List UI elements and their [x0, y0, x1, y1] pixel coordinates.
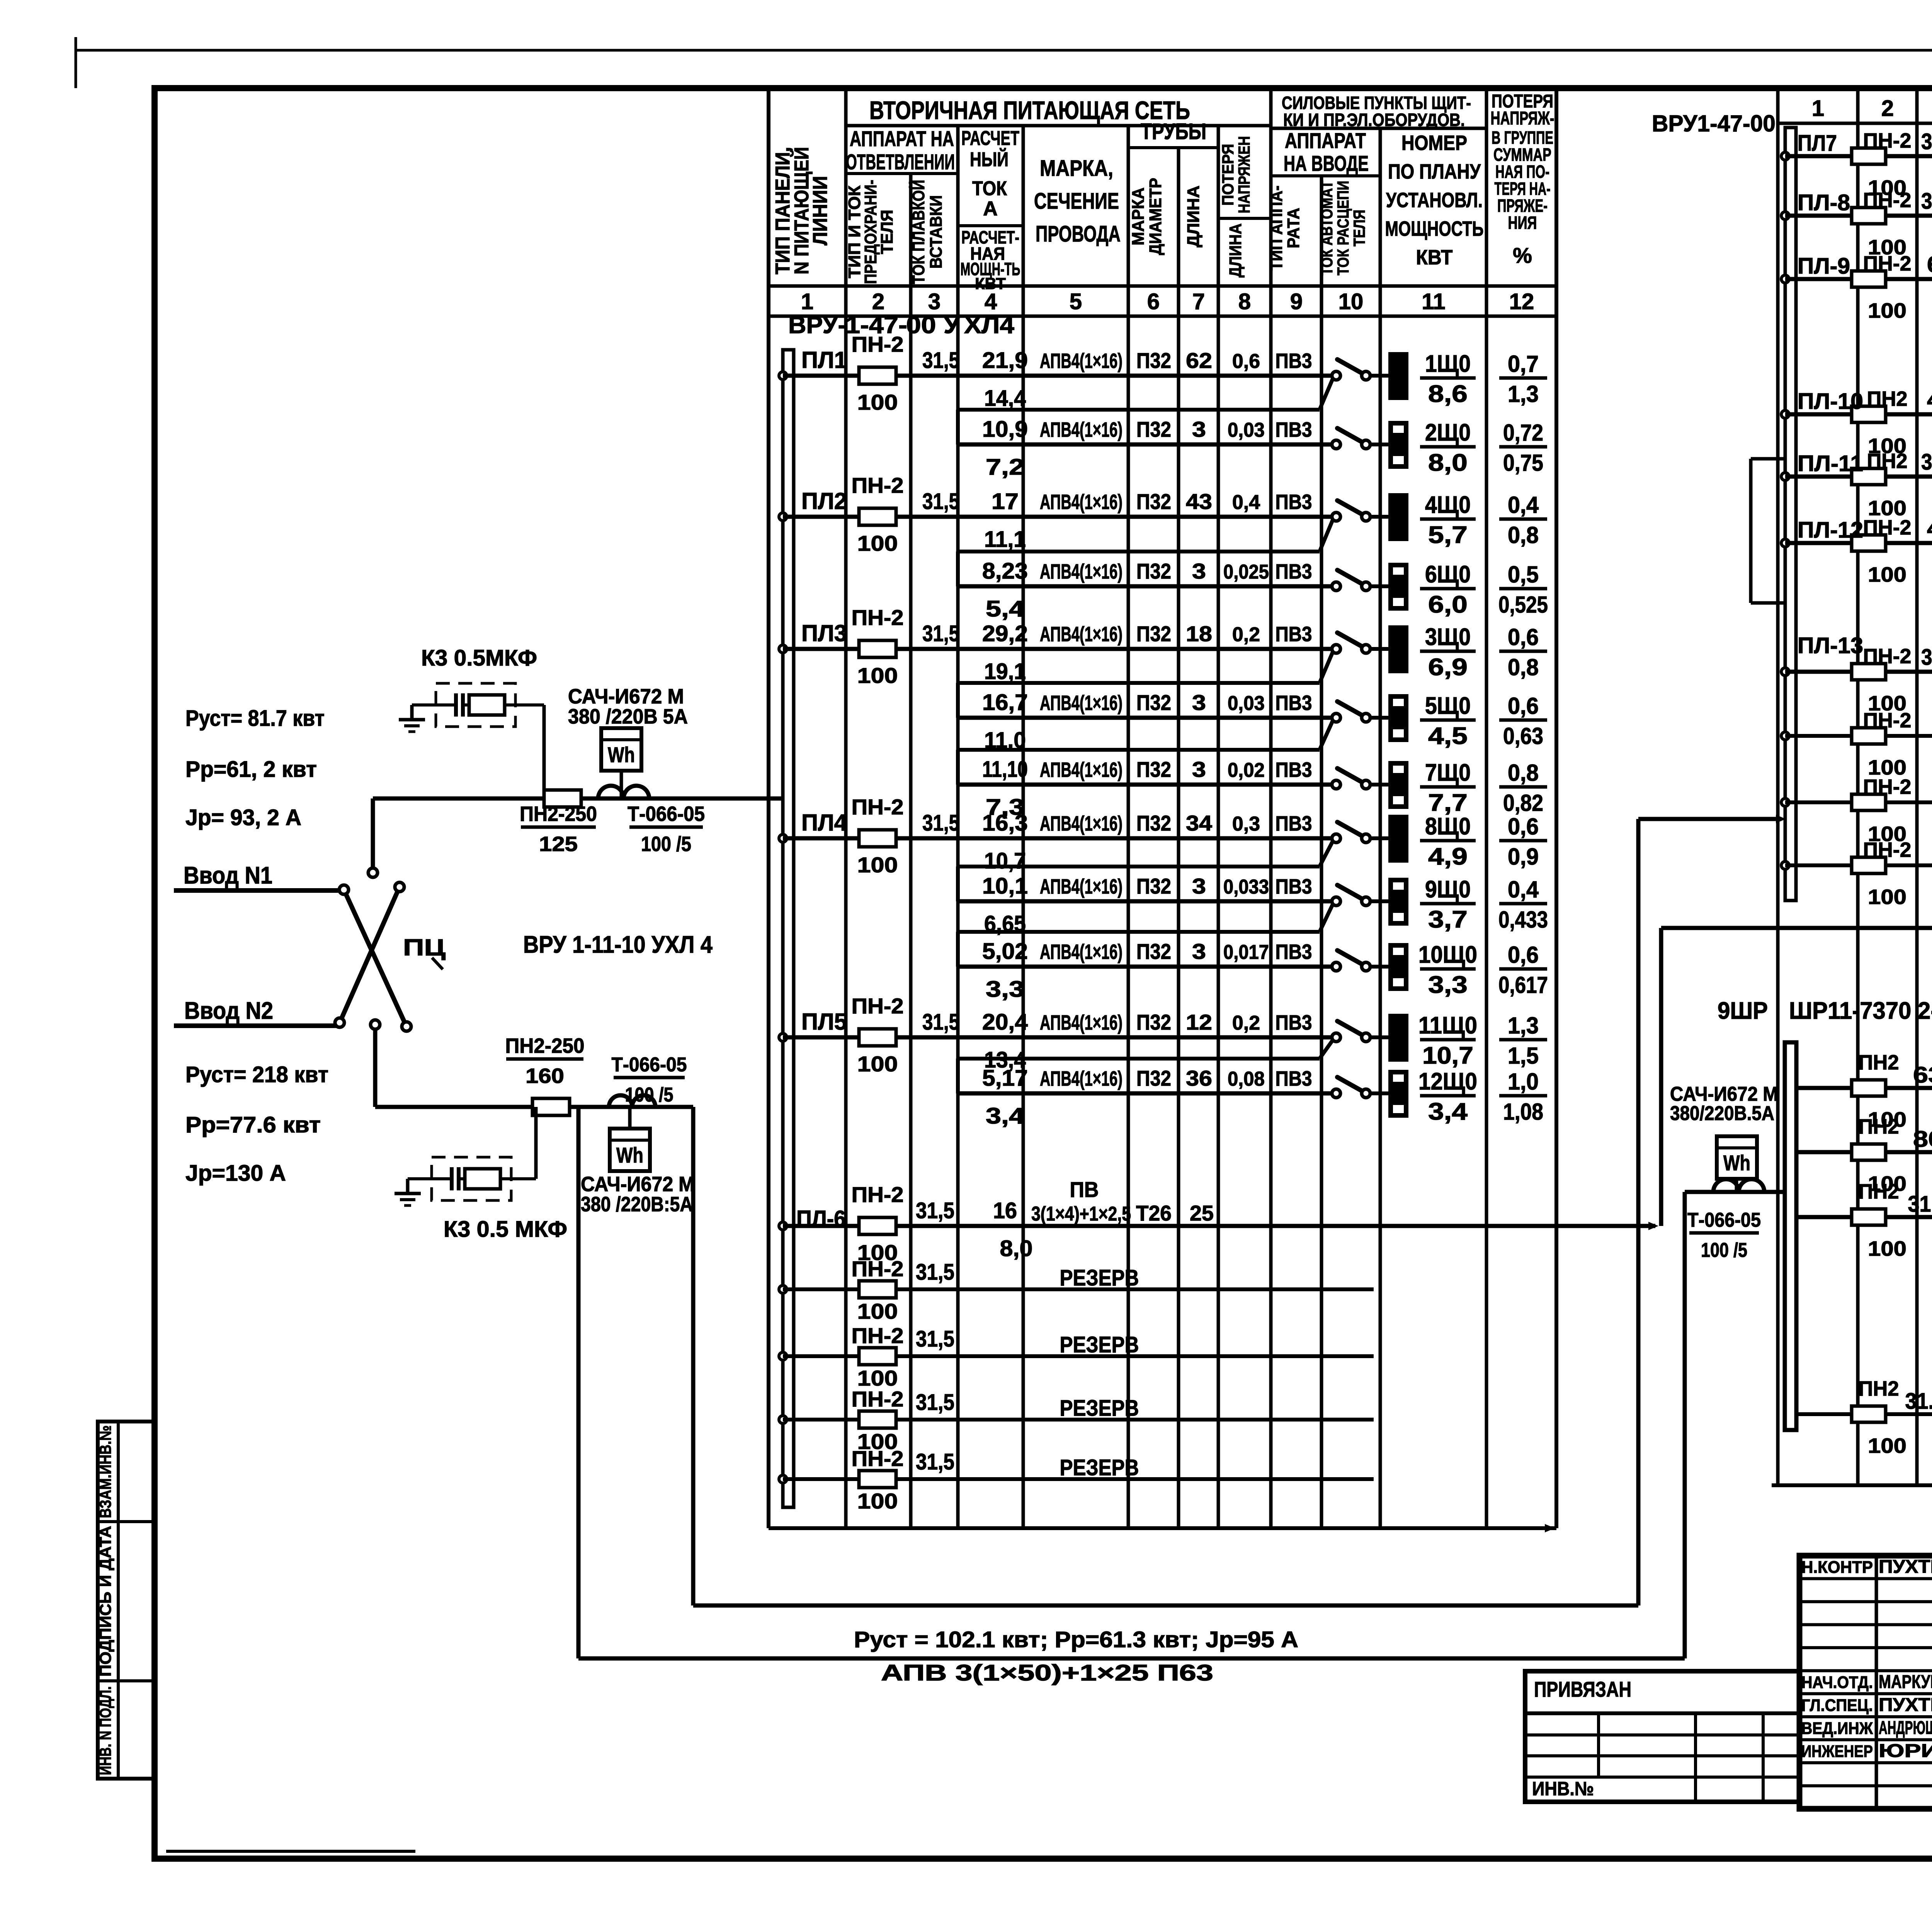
svg-text:МАРКА,: МАРКА,: [1040, 156, 1113, 181]
svg-text:34: 34: [1186, 811, 1212, 835]
svg-text:Н.КОНТР: Н.КОНТР: [1801, 1558, 1873, 1577]
svg-text:НА ВВОДЕ: НА ВВОДЕ: [1284, 151, 1369, 175]
svg-text:100: 100: [1868, 299, 1906, 322]
svg-text:П32: П32: [1136, 874, 1171, 898]
svg-text:00 У: 00 У: [906, 312, 961, 339]
svg-text:0,6: 0,6: [1508, 814, 1539, 839]
svg-text:ПЦ: ПЦ: [403, 935, 446, 960]
svg-text:П32: П32: [1136, 1066, 1171, 1090]
svg-text:0,4: 0,4: [1508, 492, 1539, 518]
svg-text:ПВ3: ПВ3: [1276, 1011, 1312, 1034]
svg-text:ЮРИСТ: ЮРИСТ: [1879, 1741, 1932, 1761]
svg-text:АПВ4(1×16): АПВ4(1×16): [1040, 812, 1122, 835]
svg-text:380 /220В:5А: 380 /220В:5А: [581, 1193, 693, 1216]
svg-text:АПВ4(1×16): АПВ4(1×16): [1040, 490, 1122, 514]
svg-text:0,433: 0,433: [1498, 907, 1548, 933]
svg-text:ПУХТЕЛЬ: ПУХТЕЛЬ: [1879, 1695, 1932, 1715]
svg-text:0,7: 0,7: [1508, 351, 1539, 377]
svg-text:100: 100: [1868, 1237, 1906, 1260]
svg-text:ПЛ2: ПЛ2: [801, 488, 847, 514]
svg-text:ОТВЕТВЛЕНИИ: ОТВЕТВЛЕНИИ: [846, 150, 955, 174]
svg-text:РЕЗЕРВ: РЕЗЕРВ: [1060, 1332, 1139, 1357]
svg-text:7,2: 7,2: [986, 455, 1024, 480]
svg-text:5,02: 5,02: [982, 939, 1028, 964]
svg-text:3: 3: [928, 289, 940, 314]
svg-text:4Щ0: 4Щ0: [1425, 492, 1471, 518]
svg-text:9Щ0: 9Щ0: [1425, 876, 1471, 903]
svg-text:РЕЗЕРВ: РЕЗЕРВ: [1060, 1455, 1139, 1480]
svg-text:14,4: 14,4: [984, 386, 1026, 411]
svg-text:МАРКУЦКИЙ: МАРКУЦКИЙ: [1879, 1671, 1932, 1692]
svg-text:31,5: 31,5: [922, 489, 959, 514]
svg-text:П32: П32: [1136, 559, 1171, 583]
svg-text:100 /5: 100 /5: [641, 833, 691, 856]
svg-text:19,1: 19,1: [984, 659, 1026, 684]
svg-text:ПН2: ПН2: [1859, 1180, 1899, 1203]
svg-text:ПН-2: ПН-2: [852, 473, 904, 497]
svg-text:А: А: [983, 197, 998, 220]
svg-text:РЕЗЕРВ: РЕЗЕРВ: [1060, 1265, 1139, 1290]
svg-text:Wh: Wh: [608, 742, 635, 767]
svg-text:ТЕЛЯ: ТЕЛЯ: [1350, 210, 1368, 247]
svg-text:ПН-2: ПН-2: [852, 1256, 904, 1281]
svg-text:100: 100: [1868, 885, 1906, 909]
svg-text:31,5: 31,5: [1908, 1192, 1932, 1217]
svg-text:РАТА: РАТА: [1284, 208, 1303, 249]
svg-text:Руст = 102.1 квт; Рр=61.3 кв: Руст = 102.1 квт; Рр=61.3 квт; Jр=95 А: [854, 1627, 1298, 1652]
svg-text:РАСЧЕТ: РАСЧЕТ: [961, 127, 1019, 150]
svg-text:40: 40: [1927, 387, 1932, 412]
svg-text:ПВ3: ПВ3: [1276, 490, 1312, 514]
svg-text:3Щ0: 3Щ0: [1425, 624, 1471, 650]
svg-text:0,4: 0,4: [1508, 877, 1539, 902]
svg-text:3,3: 3,3: [986, 977, 1024, 1002]
svg-text:ПВ3: ПВ3: [1276, 758, 1312, 781]
svg-text:ПН-2: ПН-2: [852, 605, 904, 630]
svg-text:ПЛ4: ПЛ4: [801, 810, 847, 836]
svg-text:10,7: 10,7: [1422, 1042, 1473, 1069]
svg-text:САЧ-И672 М: САЧ-И672 М: [568, 685, 684, 708]
svg-text:31,5: 31,5: [916, 1449, 954, 1474]
svg-text:25: 25: [1190, 1201, 1214, 1225]
svg-text:6Щ0: 6Щ0: [1425, 561, 1471, 588]
svg-text:10,1: 10,1: [982, 873, 1028, 899]
svg-text:10Щ0: 10Щ0: [1418, 941, 1477, 968]
svg-text:3,3: 3,3: [1428, 972, 1468, 998]
svg-text:ВРУ1-47-00: ВРУ1-47-00: [1652, 111, 1776, 136]
svg-text:8,23: 8,23: [982, 558, 1028, 584]
svg-text:ПН2: ПН2: [1867, 387, 1908, 410]
svg-text:ПН-2: ПН-2: [852, 1446, 904, 1471]
svg-text:3(1×4)+1×2,5: 3(1×4)+1×2,5: [1031, 1203, 1131, 1225]
svg-text:ПВ3: ПВ3: [1276, 812, 1312, 835]
svg-text:ПВ3: ПВ3: [1276, 349, 1312, 373]
svg-text:ТИП АППА-: ТИП АППА-: [1267, 186, 1286, 271]
svg-text:125: 125: [539, 833, 578, 856]
svg-text:20,4: 20,4: [982, 1010, 1028, 1035]
svg-text:АНДРЮЩЕНКО: АНДРЮЩЕНКО: [1879, 1718, 1932, 1738]
svg-text:0,617: 0,617: [1498, 972, 1548, 998]
svg-text:ПЛ-12: ПЛ-12: [1798, 518, 1863, 543]
svg-text:Wh: Wh: [1723, 1151, 1750, 1175]
svg-text:ПВ: ПВ: [1070, 1177, 1099, 1202]
svg-text:0,03: 0,03: [1228, 419, 1265, 441]
svg-text:5,17: 5,17: [982, 1066, 1028, 1091]
svg-text:5,4: 5,4: [986, 596, 1024, 621]
svg-text:ПРОВОДА: ПРОВОДА: [1036, 221, 1121, 247]
svg-text:7Щ0: 7Щ0: [1425, 759, 1471, 786]
svg-text:16: 16: [993, 1198, 1017, 1223]
svg-text:100: 100: [857, 390, 898, 414]
svg-text:АПВ4(1×16): АПВ4(1×16): [1040, 940, 1122, 964]
svg-text:ТОК РАСЦЕПИ: ТОК РАСЦЕПИ: [1334, 181, 1352, 276]
svg-text:31,5: 31,5: [916, 1326, 954, 1352]
svg-text:ПВ3: ПВ3: [1276, 691, 1312, 715]
svg-text:ПН-2: ПН-2: [852, 1182, 904, 1207]
svg-text:УСТАНОВЛ.: УСТАНОВЛ.: [1386, 189, 1483, 212]
svg-text:11,10: 11,10: [982, 757, 1028, 782]
svg-text:ТОК АВТОМАТ: ТОК АВТОМАТ: [1318, 180, 1336, 275]
svg-text:ДИАМЕТР: ДИАМЕТР: [1146, 178, 1165, 255]
svg-text:0,6: 0,6: [1232, 350, 1260, 373]
svg-text:ТРУБЫ: ТРУБЫ: [1141, 119, 1206, 144]
svg-text:МАРКА: МАРКА: [1129, 187, 1148, 245]
svg-text:11,1: 11,1: [984, 527, 1026, 552]
svg-text:ПН2: ПН2: [1859, 1115, 1899, 1138]
svg-text:6: 6: [1147, 289, 1160, 314]
svg-text:11: 11: [1422, 289, 1445, 314]
svg-text:4,5: 4,5: [1428, 723, 1468, 749]
svg-text:18: 18: [1186, 621, 1212, 646]
svg-text:ТОК ПЛАВКОЙ: ТОК ПЛАВКОЙ: [908, 180, 928, 284]
svg-text:Ввод N1: Ввод N1: [184, 862, 272, 889]
svg-text:ПН-2: ПН-2: [1863, 189, 1912, 212]
svg-text:100: 100: [857, 853, 898, 877]
svg-text:0,3: 0,3: [1232, 813, 1260, 835]
svg-text:31,5: 31,5: [922, 1010, 959, 1035]
svg-text:ПВ3: ПВ3: [1276, 418, 1312, 441]
svg-text:Т-066-05: Т-066-05: [612, 1054, 687, 1076]
svg-text:П32: П32: [1136, 621, 1171, 646]
svg-text:100: 100: [857, 1052, 898, 1076]
svg-text:3: 3: [1192, 559, 1206, 583]
svg-text:ВРУ 1-11-10 УХЛ 4: ВРУ 1-11-10 УХЛ 4: [523, 931, 713, 958]
svg-text:2: 2: [1881, 96, 1894, 121]
svg-text:ПН-2: ПН-2: [1863, 838, 1912, 861]
svg-text:ПЛ-11: ПЛ-11: [1798, 451, 1863, 476]
svg-text:АПВ4(1×16): АПВ4(1×16): [1040, 349, 1122, 373]
svg-text:ЛИНИИ: ЛИНИИ: [809, 176, 832, 245]
svg-text:16,3: 16,3: [982, 810, 1028, 836]
svg-text:Т-066-05: Т-066-05: [628, 802, 705, 826]
svg-text:0,2: 0,2: [1232, 623, 1260, 646]
svg-text:ПН-2: ПН-2: [1863, 252, 1912, 275]
svg-text:АПВ4(1×16): АПВ4(1×16): [1040, 1011, 1122, 1034]
svg-text:ПВ3: ПВ3: [1276, 940, 1312, 964]
svg-text:16,7: 16,7: [982, 690, 1028, 715]
svg-text:АПВ4(1×16): АПВ4(1×16): [1040, 691, 1122, 715]
svg-text:Руст= 218 квт: Руст= 218 квт: [185, 1062, 328, 1087]
svg-text:0,025: 0,025: [1223, 561, 1269, 583]
svg-text:10: 10: [1338, 289, 1364, 314]
svg-text:ДЛИНА: ДЛИНА: [1226, 223, 1245, 278]
svg-text:ДЛИНА: ДЛИНА: [1184, 186, 1203, 247]
svg-text:4,9: 4,9: [1428, 843, 1468, 870]
svg-text:НАПРЯЖЕН: НАПРЯЖЕН: [1235, 136, 1253, 213]
svg-text:1,3: 1,3: [1508, 381, 1539, 407]
svg-text:1: 1: [1812, 96, 1824, 121]
svg-text:АПВ4(1×16): АПВ4(1×16): [1040, 875, 1122, 898]
svg-text:ИНВ.№: ИНВ.№: [1532, 1778, 1594, 1800]
svg-text:31,5: 31,5: [922, 810, 959, 836]
svg-text:АПВ 3(1×50)+1×25 П63: АПВ 3(1×50)+1×25 П63: [881, 1660, 1213, 1685]
svg-text:Jр=130 А: Jр=130 А: [185, 1161, 286, 1186]
svg-text:П32: П32: [1136, 811, 1171, 835]
svg-text:Ввод N2: Ввод N2: [184, 998, 273, 1024]
svg-text:9: 9: [1290, 289, 1303, 314]
svg-text:ПН-2: ПН-2: [852, 994, 904, 1018]
svg-text:11Щ0: 11Щ0: [1418, 1012, 1477, 1039]
svg-text:5: 5: [1070, 289, 1082, 314]
svg-text:ВРУ-: ВРУ-: [788, 312, 846, 339]
svg-text:6,0: 6,0: [1428, 591, 1468, 618]
svg-text:100: 100: [857, 1489, 898, 1513]
svg-text:НОМЕР: НОМЕР: [1401, 131, 1467, 155]
svg-text:2: 2: [872, 289, 884, 314]
svg-text:3: 3: [1192, 417, 1206, 441]
svg-text:1,3: 1,3: [1508, 1013, 1539, 1039]
svg-text:0,02: 0,02: [1228, 759, 1265, 781]
svg-text:0,72: 0,72: [1503, 420, 1543, 446]
svg-text:П32: П32: [1136, 348, 1171, 373]
svg-text:100: 100: [857, 531, 898, 555]
svg-text:0,017: 0,017: [1223, 941, 1269, 964]
svg-text:62: 62: [1186, 348, 1212, 373]
svg-text:1,0: 1,0: [1508, 1069, 1539, 1095]
svg-text:0,03: 0,03: [1228, 692, 1265, 715]
svg-text:КВТ: КВТ: [1416, 246, 1453, 269]
svg-text:ПВ3: ПВ3: [1276, 623, 1312, 646]
svg-text:8Щ0: 8Щ0: [1425, 813, 1471, 840]
svg-text:ПУХТЕЛЬ: ПУХТЕЛЬ: [1879, 1557, 1932, 1577]
svg-text:Рр=61, 2 квт: Рр=61, 2 квт: [185, 757, 317, 782]
svg-text:0,6: 0,6: [1508, 942, 1539, 968]
svg-text:2Щ0: 2Щ0: [1425, 419, 1471, 446]
svg-text:П32: П32: [1136, 757, 1171, 781]
svg-text:РЕЗЕРВ: РЕЗЕРВ: [1060, 1396, 1139, 1421]
svg-text:0,525: 0,525: [1498, 592, 1548, 618]
svg-text:380 /220В 5А: 380 /220В 5А: [568, 705, 688, 728]
svg-text:31,5: 31,5: [916, 1198, 954, 1223]
svg-text:36: 36: [1186, 1066, 1212, 1090]
svg-text:П32: П32: [1136, 489, 1171, 514]
svg-text:43: 43: [1186, 489, 1212, 514]
svg-text:100: 100: [857, 1299, 898, 1323]
svg-text:ПН-2: ПН-2: [1863, 775, 1912, 798]
svg-text:ПОТЕРЯ: ПОТЕРЯ: [1219, 144, 1237, 206]
svg-text:3: 3: [1192, 939, 1206, 964]
svg-text:ПВ3: ПВ3: [1276, 1067, 1312, 1090]
svg-text:НИЯ: НИЯ: [1508, 213, 1537, 233]
svg-text:12Щ0: 12Щ0: [1418, 1068, 1477, 1095]
svg-text:3: 3: [1192, 874, 1206, 898]
svg-text:3,4: 3,4: [986, 1103, 1024, 1129]
svg-text:0,033: 0,033: [1223, 876, 1269, 898]
svg-text:10,9: 10,9: [982, 417, 1028, 442]
svg-text:3,4: 3,4: [1428, 1098, 1468, 1125]
svg-text:ПЛ-13: ПЛ-13: [1798, 633, 1863, 658]
svg-text:ИНЖЕНЕР: ИНЖЕНЕР: [1801, 1742, 1873, 1761]
svg-text:29,2: 29,2: [982, 621, 1028, 646]
svg-text:10,7: 10,7: [984, 848, 1026, 873]
svg-text:НАЧ.ОТД.: НАЧ.ОТД.: [1801, 1673, 1873, 1692]
svg-text:ПН2: ПН2: [1867, 449, 1908, 473]
svg-text:0,8: 0,8: [1508, 760, 1539, 786]
svg-text:0,8: 0,8: [1508, 522, 1539, 548]
svg-text:5Щ0: 5Щ0: [1425, 693, 1471, 719]
svg-text:8,0: 8,0: [1428, 449, 1468, 476]
svg-text:ПОДПИСЬ И ДАТА: ПОДПИСЬ И ДАТА: [96, 1526, 114, 1677]
svg-text:К3 0.5 МКФ: К3 0.5 МКФ: [444, 1217, 567, 1242]
svg-text:31,5: 31,5: [1921, 129, 1932, 154]
svg-text:17: 17: [992, 489, 1019, 514]
svg-text:ПН-2: ПН-2: [852, 332, 904, 356]
svg-text:3: 3: [1192, 690, 1206, 715]
svg-text:63: 63: [1927, 252, 1932, 277]
svg-text:3: 3: [1192, 757, 1206, 781]
svg-text:П32: П32: [1136, 417, 1171, 441]
svg-text:ПВ3: ПВ3: [1276, 875, 1312, 898]
svg-text:ПН2-250: ПН2-250: [520, 802, 597, 826]
svg-text:ПН-2: ПН-2: [1863, 709, 1912, 732]
svg-text:0,8: 0,8: [1508, 654, 1539, 680]
svg-text:ТОК: ТОК: [972, 177, 1007, 200]
svg-text:31,5: 31,5: [922, 621, 959, 646]
svg-text:Т26: Т26: [1136, 1201, 1172, 1225]
svg-text:НАПРЯЖ-: НАПРЯЖ-: [1491, 108, 1554, 129]
svg-text:100: 100: [1868, 1434, 1906, 1457]
svg-text:1,5: 1,5: [1508, 1043, 1539, 1069]
svg-text:160: 160: [526, 1064, 564, 1088]
svg-text:0,63: 0,63: [1503, 723, 1543, 749]
svg-text:ШР11-7370 2-22 У3: ШР11-7370 2-22 У3: [1789, 998, 1932, 1024]
svg-text:КИ И ПР.ЭЛ.ОБОРУДОВ.: КИ И ПР.ЭЛ.ОБОРУДОВ.: [1283, 110, 1465, 130]
svg-text:8,6: 8,6: [1428, 381, 1468, 407]
svg-text:ПЛ-9: ПЛ-9: [1798, 254, 1850, 279]
svg-text:ВЕД.ИНЖ: ВЕД.ИНЖ: [1801, 1719, 1873, 1738]
svg-text:0,9: 0,9: [1508, 844, 1539, 870]
svg-text:1Щ0: 1Щ0: [1425, 351, 1471, 377]
svg-text:380/220В.5А: 380/220В.5А: [1670, 1102, 1774, 1125]
svg-text:100: 100: [857, 663, 898, 688]
svg-text:ПН2-250: ПН2-250: [505, 1034, 585, 1057]
svg-text:21,9: 21,9: [982, 348, 1028, 373]
svg-text:31,5: 31,5: [1921, 189, 1932, 214]
svg-text:ВЗАМ.ИНВ.№: ВЗАМ.ИНВ.№: [96, 1425, 114, 1518]
svg-text:АПВ4(1×16): АПВ4(1×16): [1040, 623, 1122, 646]
svg-text:ПН-2: ПН-2: [1863, 645, 1912, 668]
svg-text:САЧ-И672 М: САЧ-И672 М: [581, 1173, 695, 1196]
svg-text:ПЛ3: ПЛ3: [801, 620, 847, 646]
svg-text:ПЛ-10: ПЛ-10: [1798, 389, 1863, 414]
svg-text:ПН-2: ПН-2: [1863, 516, 1912, 539]
svg-text:31,5: 31,5: [916, 1390, 954, 1415]
svg-text:0,6: 0,6: [1508, 624, 1539, 650]
svg-text:100 /5: 100 /5: [1701, 1239, 1747, 1262]
svg-text:4: 4: [985, 289, 997, 314]
svg-text:0,6: 0,6: [1508, 693, 1539, 719]
svg-text:ПН-2: ПН-2: [852, 1323, 904, 1348]
svg-text:СЕЧЕНИЕ: СЕЧЕНИЕ: [1034, 189, 1119, 214]
svg-text:ПН2: ПН2: [1859, 1377, 1899, 1400]
svg-text:100 /5: 100 /5: [625, 1084, 673, 1106]
svg-text:АППАРАТ: АППАРАТ: [1285, 128, 1366, 153]
svg-text:АПВ4(1×16): АПВ4(1×16): [1040, 758, 1122, 781]
svg-text:8: 8: [1238, 289, 1251, 314]
svg-text:0,5: 0,5: [1508, 562, 1539, 587]
svg-text:АПВ4(1×16): АПВ4(1×16): [1040, 560, 1122, 583]
svg-text:0,2: 0,2: [1232, 1012, 1260, 1034]
svg-text:ПЛ1: ПЛ1: [801, 347, 847, 373]
svg-text:40: 40: [1927, 516, 1932, 541]
svg-text:Jр= 93, 2 А: Jр= 93, 2 А: [185, 805, 301, 830]
svg-text:0,82: 0,82: [1503, 790, 1543, 816]
svg-text:ПН-2: ПН-2: [852, 1387, 904, 1411]
svg-text:АПВ4(1×16): АПВ4(1×16): [1040, 418, 1122, 441]
svg-text:0,75: 0,75: [1503, 450, 1543, 476]
svg-text:Руст= 81.7 квт: Руст= 81.7 квт: [185, 706, 325, 731]
svg-text:6,9: 6,9: [1428, 654, 1468, 681]
svg-text:1: 1: [801, 289, 813, 314]
svg-text:31.5: 31.5: [1921, 449, 1932, 475]
svg-text:ПЛ5: ПЛ5: [801, 1009, 847, 1035]
svg-text:0,4: 0,4: [1232, 491, 1260, 514]
svg-text:3,7: 3,7: [1428, 906, 1468, 933]
svg-text:П32: П32: [1136, 939, 1171, 964]
svg-text:НЫЙ: НЫЙ: [970, 148, 1009, 171]
svg-text:ПЛ-8: ПЛ-8: [1798, 190, 1850, 215]
svg-text:%: %: [1513, 243, 1532, 267]
svg-text:ПРИВЯЗАН: ПРИВЯЗАН: [1534, 1677, 1631, 1701]
svg-text:Рр=77.6 квт: Рр=77.6 квт: [185, 1112, 321, 1137]
svg-text:0,08: 0,08: [1228, 1068, 1265, 1090]
svg-text:К3 0.5МКФ: К3 0.5МКФ: [421, 645, 537, 671]
svg-text:9ШР: 9ШР: [1718, 998, 1768, 1024]
svg-text:31,5: 31,5: [1921, 645, 1932, 670]
svg-text:12: 12: [1509, 289, 1534, 314]
svg-text:ПЛ-6: ПЛ-6: [796, 1206, 846, 1232]
svg-text:АПВ4(1×16): АПВ4(1×16): [1040, 1067, 1122, 1090]
svg-text:80: 80: [1913, 1127, 1932, 1152]
svg-text:АППАРАТ НА: АППАРАТ НА: [850, 126, 954, 151]
svg-text:ПО ПЛАНУ: ПО ПЛАНУ: [1388, 160, 1481, 183]
svg-text:МОЩНОСТЬ: МОЩНОСТЬ: [1385, 217, 1484, 240]
svg-text:ХЛ4: ХЛ4: [964, 312, 1015, 339]
svg-text:31,5: 31,5: [916, 1260, 954, 1285]
svg-text:Т-066-05: Т-066-05: [1687, 1209, 1761, 1231]
svg-text:7: 7: [1192, 289, 1205, 314]
svg-text:Wh: Wh: [616, 1143, 643, 1167]
svg-text:ТЕЛЯ: ТЕЛЯ: [878, 210, 896, 254]
svg-text:ВСТАВКИ: ВСТАВКИ: [927, 195, 946, 269]
svg-text:31.5: 31.5: [1905, 1389, 1932, 1414]
svg-text:ПН-2: ПН-2: [852, 795, 904, 819]
svg-text:ГЛ.СПЕЦ.: ГЛ.СПЕЦ.: [1801, 1696, 1873, 1715]
svg-text:П32: П32: [1136, 1010, 1171, 1034]
svg-text:12: 12: [1186, 1010, 1212, 1034]
svg-text:7,7: 7,7: [1428, 790, 1468, 816]
svg-text:ПВ3: ПВ3: [1276, 560, 1312, 583]
